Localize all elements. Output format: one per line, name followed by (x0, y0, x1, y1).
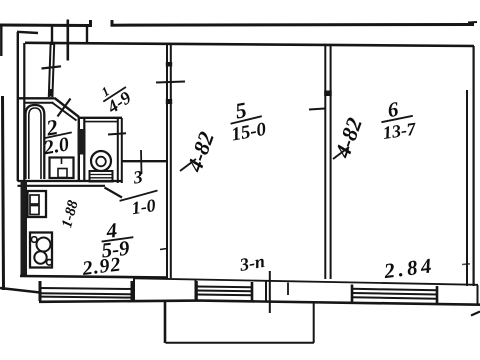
label room1 hall 4.9 (95, 74, 136, 117)
label kitchen depth 1.88 (59, 198, 82, 229)
stove burner big (37, 238, 51, 252)
label room6 depth tail (333, 147, 349, 159)
bathroom east wall (78, 117, 80, 181)
kitchen door tick (140, 150, 143, 174)
bathtub outer (26, 105, 45, 179)
closet west wall inner (23, 43, 25, 181)
washbasin tap (61, 158, 63, 165)
stove burner medium (34, 251, 46, 263)
hall east wall joint blob a (166, 62, 172, 67)
balcony east edge (313, 302, 315, 343)
left outer wall lower (3, 96, 4, 290)
stove burner small b (47, 260, 53, 266)
hall-kitchen wall (122, 160, 168, 162)
toilet tank (90, 171, 113, 182)
toilet west wall black fill (78, 129, 86, 155)
wire top outer wall right segment with hook (112, 20, 474, 25)
svg-text:2.0: 2.0 (41, 133, 70, 159)
balcony west edge (164, 301, 167, 343)
hall east wall joint tick (160, 249, 167, 250)
room5 window cap right (251, 282, 254, 302)
stove burner small a (31, 237, 37, 243)
bathtub inner (29, 108, 41, 179)
label room3 toilet 1.0 (115, 165, 161, 220)
hall east wall line a (166, 45, 168, 278)
toilet west wall (83, 118, 85, 181)
label room4 kitchen 5.9 (98, 216, 135, 262)
room6 window cap right (436, 286, 439, 304)
label room5 depth 4.82 (181, 128, 219, 175)
room divider wall line b (330, 45, 332, 279)
bathroom chamfer wall outer (55, 98, 80, 117)
svg-text:1-0: 1-0 (130, 195, 157, 218)
bathroom block bottom wall upper line (18, 180, 123, 182)
room divider wall line a (324, 45, 326, 279)
band blank box cap left (133, 279, 135, 301)
toilet east wall line b (121, 118, 123, 183)
label room5 depth tail (180, 159, 196, 171)
kitchen door leaf (105, 188, 123, 198)
hall east wall joint blob b (166, 99, 172, 104)
toilet bowl outer (91, 151, 111, 171)
bathroom block bottom wall lower line (18, 185, 106, 187)
bottom-left outer wall (0, 288, 40, 293)
toilet door tick (108, 133, 126, 134)
hall west wall foot blob (49, 89, 54, 97)
kitchen sink tap b (30, 206, 39, 215)
balcony bottom edge (166, 342, 315, 344)
hall west wall line a (49, 44, 51, 97)
right outer wall line a (466, 90, 468, 286)
room divider tick (309, 109, 325, 110)
bottom band top line (134, 278, 478, 285)
top-right corner dash (468, 21, 477, 24)
closet door tick (42, 66, 62, 68)
band right lower dash (471, 312, 480, 316)
wall stub V3 (86, 26, 88, 45)
bottom band bottom line (39, 301, 480, 305)
label room5 15.0 (225, 94, 268, 145)
toilet bowl inner (96, 157, 106, 167)
kitchen window cap right (131, 281, 134, 301)
kitchen window cap left (39, 281, 42, 301)
bathroom chamfer wall inner (52, 103, 77, 121)
band blank box cap right (195, 280, 197, 301)
hall east wall line b (170, 45, 172, 278)
room5 window cap left (195, 281, 198, 301)
washbasin inner mark (58, 169, 67, 178)
right wall faint tick (462, 263, 470, 266)
stove outline (30, 233, 52, 268)
divider wall joint blob (324, 91, 332, 97)
wall stub V1 (51, 26, 53, 45)
kitchen sink tap a (30, 195, 39, 204)
hall east wall tick (156, 82, 185, 83)
band divider line (265, 281, 267, 302)
room6 window cap left (351, 285, 354, 304)
bathroom top wall inner (24, 102, 54, 104)
bathroom top wall outer (18, 97, 55, 99)
room6 window lines (352, 289, 437, 299)
band small tick (287, 283, 289, 296)
wall stub V2 entry (67, 20, 70, 61)
toilet east wall line a (117, 118, 119, 183)
hall west wall line b (52, 44, 54, 97)
bathroom door leaf (58, 99, 71, 117)
wire top wall inner line (25, 43, 474, 46)
toilet top wall inner (85, 121, 117, 123)
wire top-left niche ledge (17, 32, 38, 33)
band right cap (477, 285, 479, 305)
room5 window lines (197, 287, 252, 296)
toilet tank hatch (90, 175, 112, 178)
kitchen bottom wall (20, 276, 168, 278)
right outer wall line b (473, 46, 475, 286)
kitchen sink (28, 191, 47, 217)
label room6 depth 4.82 (329, 114, 367, 161)
dimension tick tall (269, 271, 271, 313)
label room2 bathroom 2.0 (38, 112, 76, 160)
kitchen window lines (40, 288, 132, 298)
closet west wall outer (17, 32, 19, 181)
left outer wall upper (0, 25, 2, 56)
wire top outer wall left segment (0, 20, 91, 26)
label room6 13.7 (378, 95, 418, 143)
toilet top wall outer (79, 117, 123, 119)
kitchen west wall black (21, 181, 28, 277)
washbasin (50, 158, 74, 179)
